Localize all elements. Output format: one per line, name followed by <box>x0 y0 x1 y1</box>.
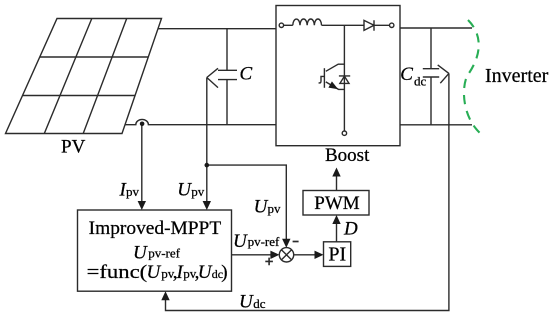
svg-text:pv-ref: pv-ref <box>148 245 180 260</box>
svg-text:Improved-MPPT: Improved-MPPT <box>89 218 222 239</box>
svg-text:PI: PI <box>328 244 346 266</box>
svg-text:pv: pv <box>268 201 282 216</box>
svg-text:Inverter: Inverter <box>485 65 549 87</box>
svg-text:U: U <box>254 196 269 217</box>
svg-text:U: U <box>147 262 162 283</box>
svg-text:dc: dc <box>414 74 427 89</box>
svg-text:pv-ref: pv-ref <box>248 234 280 249</box>
svg-text:pv: pv <box>191 184 205 199</box>
svg-text:Boost: Boost <box>325 145 370 166</box>
svg-text:U: U <box>198 262 213 283</box>
svg-text:C: C <box>240 64 253 85</box>
svg-text:U: U <box>233 231 248 252</box>
svg-text:pv: pv <box>126 184 140 199</box>
svg-text:dc: dc <box>253 296 266 311</box>
svg-text:U: U <box>239 291 254 312</box>
svg-text:U: U <box>177 179 192 200</box>
svg-text:PV: PV <box>61 137 86 158</box>
svg-text:C: C <box>400 64 413 85</box>
svg-text:PWM: PWM <box>314 193 360 214</box>
svg-text:): ) <box>221 262 227 283</box>
svg-text:=func(: =func( <box>87 262 148 283</box>
svg-text:U: U <box>133 243 148 264</box>
svg-text:D: D <box>343 219 358 240</box>
